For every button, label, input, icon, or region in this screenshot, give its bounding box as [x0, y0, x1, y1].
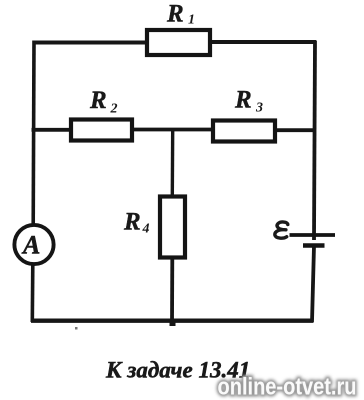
wire: top-right horizontal from R1 to right rail: [210, 40, 316, 44]
wire: bottom horizontal rail: [31, 319, 314, 323]
wire: middle vertical, node to R4: [171, 128, 175, 197]
wire: middle horizontal, R3 to right rail: [275, 128, 316, 132]
wire: left vertical rail lower segment (ammeter to bottom corner): [30, 263, 34, 322]
battery EMF long plate: [290, 233, 336, 237]
svg-text:3: 3: [255, 101, 263, 116]
svg-text:R: R: [89, 87, 107, 114]
battery EMF short plate: [303, 243, 325, 248]
svg-text:2: 2: [110, 102, 118, 117]
wire: right vertical rail upper segment (top corner to battery): [314, 41, 315, 241]
svg-text:online-otvet.ru: online-otvet.ru: [218, 374, 357, 400]
label EMF script E: [275, 222, 288, 238]
resistor R1: [147, 30, 210, 55]
svg-text:4: 4: [142, 222, 150, 237]
svg-text:1: 1: [188, 13, 195, 28]
wire: middle horizontal, R2 to R3 through node: [132, 128, 214, 132]
wire: middle vertical, R4 to bottom wire: [170, 258, 174, 326]
resistor R3: [213, 121, 275, 142]
wire: right vertical rail lower segment (battery to bottom corner): [312, 246, 314, 322]
speck artifact below bottom wire: [75, 327, 78, 330]
ammeter A1 circle: [14, 225, 53, 264]
resistor R4 (vertical): [160, 197, 185, 258]
wire: top-left horizontal from left rail to R1: [33, 41, 148, 45]
svg-text:R: R: [166, 1, 184, 28]
resistor R2: [71, 120, 132, 141]
svg-text:R: R: [123, 209, 141, 236]
watermark online-otvet.ru: [218, 374, 357, 400]
wire: middle horizontal, left rail to R2: [32, 128, 72, 132]
wire: left vertical rail upper segment (top corner to ammeter): [31, 41, 35, 227]
svg-text:A: A: [21, 231, 40, 260]
junction blob at middle-bottom node: [170, 319, 176, 326]
svg-text:R: R: [234, 87, 252, 114]
